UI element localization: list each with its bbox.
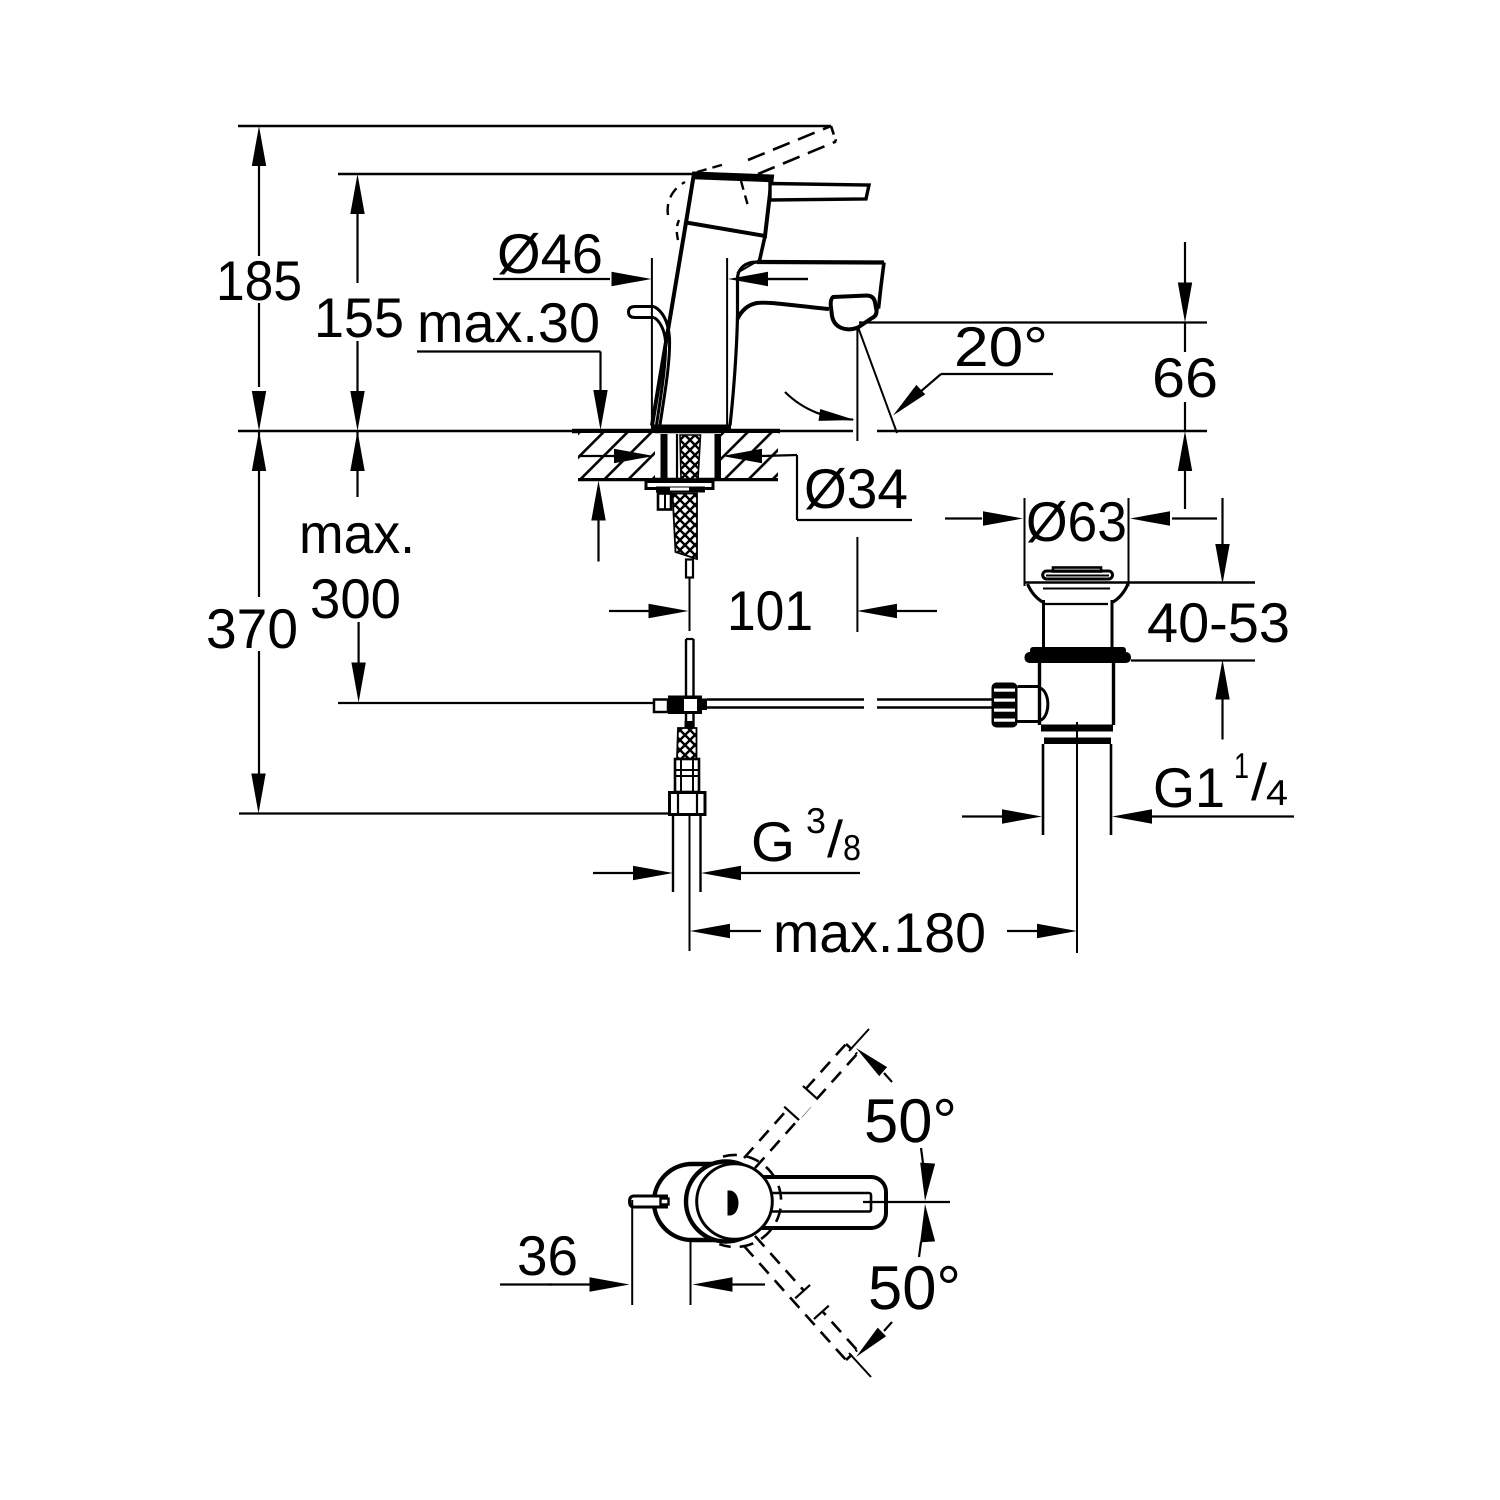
outlet height reference line (859, 321, 1207, 323)
deck cross-section thick top edge (572, 429, 780, 434)
plan horizontal center line (863, 1201, 950, 1203)
dim Ø34 arrows at shank (580, 455, 614, 457)
deck hatching left of hole (578, 433, 655, 478)
dim 36 extension lines (631, 1200, 633, 1305)
drain axis center line (1076, 722, 1078, 953)
plan spout outer rounded rect (740, 1177, 886, 1228)
faucet base black band (651, 425, 731, 432)
svg-text:Ø46: Ø46 (497, 222, 603, 285)
dimension 185 vertical with arrows (252, 126, 266, 166)
dim G 3/8 arrows (633, 866, 673, 880)
svg-text:4: 4 (1266, 772, 1288, 813)
dimension 370 vertical (258, 431, 260, 597)
dim 40-53 top arrow (1221, 498, 1223, 546)
drain flange right flare (1113, 584, 1128, 602)
deck surface line left of angle vertex (238, 430, 853, 433)
pop-up cross block (668, 696, 702, 715)
braided hose below deck (673, 494, 698, 560)
dim Ø63 arrows (945, 517, 982, 519)
raised lever dashed end cap (831, 126, 836, 142)
raised handle phantom dashed arc inner (677, 220, 679, 240)
dimension 101 arrows and line (609, 610, 649, 612)
pop-up rod through shank (676, 434, 678, 480)
handle knob thick top band (693, 176, 772, 179)
svg-text:370: 370 (206, 597, 298, 660)
svg-text:101: 101 (727, 579, 813, 642)
svg-text:max.30: max.30 (417, 291, 600, 354)
20deg leader line and arrow (941, 373, 1053, 375)
pop-up rod knob bar behind faucet (629, 307, 655, 318)
dim Ø46 arrows (493, 278, 610, 280)
svg-text:3: 3 (806, 800, 826, 841)
neck segment below handle right (759, 236, 765, 263)
drain pop-up plug cap (1043, 571, 1113, 579)
plan body stadium outline (654, 1164, 730, 1240)
pop-up rod below block with collar (685, 714, 687, 727)
solid lever horizontal (770, 184, 869, 201)
dim line 185 top horizontal (238, 125, 831, 127)
dim line 155 horizontal (338, 173, 695, 175)
shank tube left wall in hole (661, 434, 668, 480)
faucet neck right edge (730, 262, 758, 426)
20deg dimension arc (785, 392, 853, 420)
svg-text:50°: 50° (868, 1254, 961, 1323)
spout underside fillet curve (738, 303, 830, 319)
braided hose segment below linkage (677, 728, 697, 759)
101 extension line at spout axis (856, 537, 858, 632)
handle knob quadrilateral (686, 174, 772, 237)
dimension 66 vertical (1184, 242, 1186, 283)
raised lever dashed lower edge (758, 142, 836, 175)
upper 50deg leader arrow (856, 1048, 887, 1076)
hose tail thin line (689, 578, 691, 631)
dim max.180 right arrow at drain axis (1007, 930, 1037, 932)
pop-up rod S-curve outer (654, 307, 670, 426)
deck hatching right of hole (721, 433, 778, 478)
spout neck top hint line (737, 263, 755, 274)
plan dashed circle Ø46 (719, 1155, 781, 1247)
max.300 bottom reference line (338, 702, 654, 704)
dimension max.300 vertical (356, 431, 358, 497)
plan upper lever break symbol (784, 1086, 818, 1120)
pop-up rod S-curve inner (654, 318, 666, 426)
plan cartridge stem D-shape (728, 1191, 739, 1216)
braided supply hose in shank (680, 435, 701, 479)
drain seal black band (1030, 647, 1126, 655)
raised handle phantom dashes top (697, 164, 725, 172)
svg-text:300: 300 (310, 567, 401, 630)
spout right end face (879, 263, 885, 309)
20deg slanted stream line (858, 327, 897, 433)
svg-text:50°: 50° (864, 1087, 957, 1156)
svg-text:max.: max. (299, 502, 415, 565)
hose end fitting (675, 759, 699, 792)
faucet body left edge (652, 223, 686, 426)
plan upper lever dashed edges (744, 1044, 846, 1158)
plan lower lever axis extension (849, 1353, 871, 1377)
knob connector with bulge (1018, 687, 1041, 722)
40-53 bottom extension line (1131, 659, 1255, 661)
drain neck walls (1042, 600, 1045, 648)
drain flange top line with 40-53 extension (1025, 581, 1256, 583)
drain tailpipe walls (1042, 744, 1045, 835)
svg-text:40-53: 40-53 (1147, 591, 1290, 654)
drain neck inner lines (1043, 588, 1110, 590)
horizontal pop-up rod to drain (707, 698, 864, 700)
dim Ø46 extension lines (651, 258, 653, 427)
Ø34 leader box (796, 455, 798, 520)
lower 50deg leader arrow (856, 1328, 886, 1357)
pop-up vertical rod below hose (686, 638, 694, 640)
plan lower lever dashed edges (744, 1246, 846, 1360)
supply axis center line (689, 815, 691, 952)
plan inner circle (697, 1164, 773, 1240)
spout bottom edge near end (874, 308, 879, 309)
svg-text:Ø63: Ø63 (1026, 490, 1127, 553)
dim 36 arrows (500, 1283, 552, 1285)
plan lower lever break symbol (795, 1285, 829, 1319)
svg-text:185: 185 (216, 249, 302, 312)
svg-text:66: 66 (1152, 346, 1218, 409)
svg-text:/: / (827, 811, 844, 869)
hose tail tube (686, 560, 693, 578)
svg-text:1: 1 (1234, 745, 1249, 786)
mounting nut below washer (656, 487, 705, 493)
plan pop-up rod bar (630, 1196, 669, 1207)
drain body walls below seal (1038, 663, 1041, 725)
raised lever dashed upper edge (748, 126, 831, 160)
svg-text:Ø34: Ø34 (804, 457, 908, 520)
370 bottom reference line (239, 812, 668, 814)
svg-text:20°: 20° (954, 315, 1048, 378)
max.30 leader and arrows (417, 350, 601, 352)
drain knurled knob (992, 683, 1018, 728)
shank tube right wall in hole (715, 434, 722, 480)
dim Ø63 extension lines (1024, 498, 1026, 586)
svg-text:155: 155 (314, 286, 404, 349)
aerator nozzle on spout (831, 296, 877, 330)
dim G1 1/4 arrows (962, 815, 1002, 817)
mounting washer below deck (646, 482, 713, 489)
plan lever inner rect (745, 1193, 871, 1212)
svg-text:8: 8 (843, 827, 861, 868)
shank tube end below nut (658, 494, 671, 510)
dim max.180 left arrow at supply axis (690, 924, 730, 938)
svg-text:G1: G1 (1153, 756, 1225, 819)
dim 40-53 bottom arrow (1215, 660, 1229, 700)
plan outer circle (686, 1162, 766, 1242)
hose coupling nut G3/8 (670, 793, 706, 815)
plan rod tip rect (661, 1199, 669, 1205)
drain flange left flare (1028, 584, 1043, 602)
block right joint piece (697, 699, 707, 711)
drain pop-up plug top plate (1053, 568, 1101, 572)
drain step bands (1041, 725, 1113, 732)
plan upper lever axis extension (849, 1029, 869, 1051)
dimension 155 vertical with arrows (350, 174, 364, 214)
svg-text:G: G (751, 810, 795, 873)
supply tube below nut (672, 815, 674, 893)
svg-text:36: 36 (517, 1224, 578, 1287)
svg-text:max.180: max.180 (773, 901, 986, 964)
deck cross-section bottom edge (578, 478, 778, 482)
50deg arc end arrows at center line (920, 1163, 935, 1201)
spout top edge (757, 260, 884, 265)
20deg vertical reference line at aerator (856, 327, 858, 441)
block left attachment (654, 700, 668, 713)
raised handle phantom dashed arc left (668, 182, 685, 215)
deck surface line right of angle vertex (877, 430, 1207, 433)
